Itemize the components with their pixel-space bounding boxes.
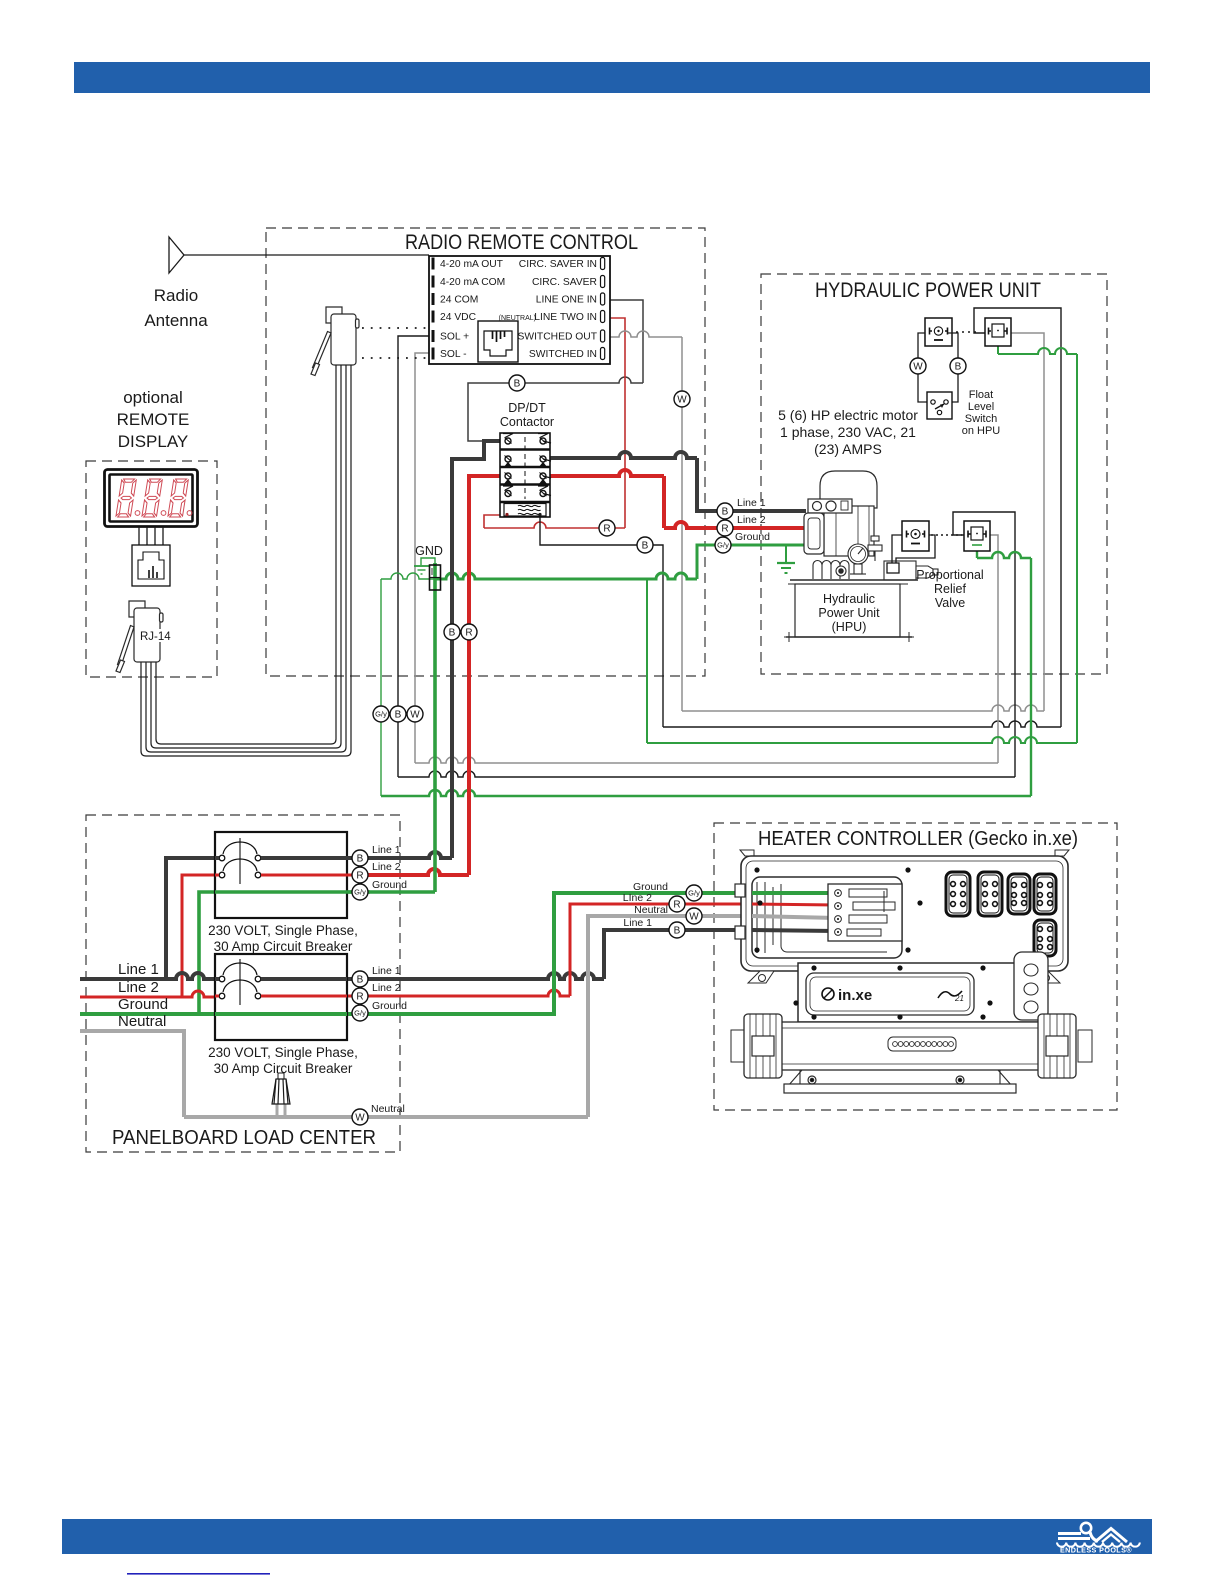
label HEATER CONTROLLER (Gecko in.xe) <box>758 828 1078 850</box>
svg-text:DP/DT: DP/DT <box>508 401 546 415</box>
endless pools logo <box>1057 1523 1140 1555</box>
svg-text:on HPU: on HPU <box>962 425 1001 437</box>
header bar <box>74 62 1150 93</box>
svg-text:DISPLAY: DISPLAY <box>118 432 189 451</box>
in.xe panel screws <box>793 965 992 1019</box>
svg-text:4-20 mA OUT: 4-20 mA OUT <box>440 259 504 270</box>
label 230 VOLT breaker 1 <box>208 923 358 954</box>
svg-text:Float: Float <box>969 389 993 401</box>
svg-text:PANELBOARD LOAD CENTER: PANELBOARD LOAD CENTER <box>112 1127 376 1149</box>
svg-text:G/y: G/y <box>375 710 387 719</box>
node G/y breaker1 <box>352 884 368 900</box>
svg-text:Ground: Ground <box>735 531 770 543</box>
svg-text:W: W <box>677 395 687 406</box>
RJ plug at radio remote <box>311 307 359 376</box>
heater tube <box>731 1014 1092 1078</box>
wire contactor coil to motor solenoid (black thin) <box>540 308 1061 727</box>
label Line 2 <box>118 979 159 996</box>
RJ-14 plug <box>116 601 163 673</box>
wire Neutral service (gray heavy) <box>80 916 837 1117</box>
in.xe heater panel <box>748 963 1060 1022</box>
wire Line 1 service (dark heavy) <box>80 930 837 979</box>
dashed box HEATER CONTROLLER <box>714 823 1117 1110</box>
dotted link SOL+ <box>362 327 428 329</box>
svg-text:Line 1: Line 1 <box>372 965 401 977</box>
svg-text:Line 1: Line 1 <box>737 497 766 509</box>
connector block J5 <box>1034 920 1056 956</box>
svg-text:4-20 mA COM: 4-20 mA COM <box>440 277 505 288</box>
wire SOL+ (black) to relief valve solenoid <box>398 336 1015 777</box>
svg-text:Ground: Ground <box>372 1000 407 1012</box>
svg-text:REMOTE: REMOTE <box>117 410 190 429</box>
GND terminal and earth symbol <box>414 544 443 590</box>
circuit breaker CB1 (230V 30A) <box>215 832 347 918</box>
svg-text:Power Unit: Power Unit <box>818 606 880 620</box>
node B motor line1 <box>717 503 733 519</box>
label Radio Antenna <box>144 286 208 330</box>
heater controller enclosure <box>735 850 1069 971</box>
svg-text:Neutral: Neutral <box>371 1103 405 1115</box>
motor solenoid box2 <box>985 318 1011 346</box>
svg-text:R: R <box>721 524 728 535</box>
wire contactor row3 to breaker1 Line2 (red heavy) <box>368 476 506 875</box>
svg-text:Antenna: Antenna <box>144 311 208 330</box>
svg-text:RADIO REMOTE CONTROL: RADIO REMOTE CONTROL <box>405 231 638 254</box>
svg-text:B: B <box>955 362 962 373</box>
footer bar <box>62 1519 1152 1554</box>
svg-text:LINE TWO IN: LINE TWO IN <box>534 312 597 323</box>
svg-text:Contactor: Contactor <box>500 415 554 429</box>
dashed box RADIO REMOTE CONTROL <box>266 228 705 676</box>
svg-text:24 VDC: 24 VDC <box>440 312 477 323</box>
node B coil <box>637 537 653 553</box>
svg-text:LINE ONE IN: LINE ONE IN <box>536 295 597 306</box>
svg-text:Ground: Ground <box>118 996 168 1013</box>
footer link underline <box>127 1573 270 1575</box>
svg-text:Neutral: Neutral <box>634 904 668 916</box>
label PANELBOARD LOAD CENTER <box>112 1127 376 1149</box>
motor solenoid box1 <box>925 318 952 346</box>
svg-text:GND: GND <box>415 544 443 558</box>
svg-text:Relief: Relief <box>934 582 966 596</box>
in.xe logo text <box>822 987 964 1004</box>
svg-text:SWITCHED IN: SWITCHED IN <box>529 349 597 360</box>
svg-text:5 (6) HP electric motor: 5 (6) HP electric motor <box>778 407 918 423</box>
heater terminal strip <box>828 884 902 941</box>
wire LINE TWO IN (red) down to R node <box>484 318 625 528</box>
label Ground <box>118 996 168 1013</box>
node B breaker2 <box>352 971 368 987</box>
wire green branch to relief valve solenoid ground <box>381 549 1031 796</box>
heater wires into terminals (redraw over compartment) <box>752 893 836 931</box>
node R motor line2 <box>717 520 733 536</box>
labels heater Ground/Line2/Neutral/Line1 <box>623 881 668 929</box>
label 230 VOLT breaker 2 <box>208 1045 358 1076</box>
svg-text:G/y: G/y <box>354 1009 366 1018</box>
svg-text:in.xe: in.xe <box>838 987 872 1004</box>
node R riser <box>461 624 477 640</box>
label optional REMOTE DISPLAY <box>117 388 190 451</box>
label 5 (6) HP electric motor <box>778 407 918 457</box>
svg-text:HYDRAULIC POWER UNIT: HYDRAULIC POWER UNIT <box>815 279 1041 302</box>
label Proportional Relief Valve <box>916 568 983 610</box>
svg-text:Level: Level <box>968 401 994 413</box>
svg-text:Line 1: Line 1 <box>118 961 159 978</box>
heater bottom bracket <box>784 1070 1016 1093</box>
antenna <box>169 237 429 273</box>
wire LINE ONE IN to contactor coil feed (black) <box>468 300 643 441</box>
svg-text:B: B <box>514 379 521 390</box>
svg-text:HEATER CONTROLLER (Gecko in.xe: HEATER CONTROLLER (Gecko in.xe) <box>758 828 1078 850</box>
dotted link SOL- <box>362 357 428 359</box>
node G/y motor ground <box>715 537 731 553</box>
node W switched-out <box>674 391 690 407</box>
svg-text:230 VOLT, Single Phase,: 230 VOLT, Single Phase, <box>208 923 358 938</box>
relief valve wires <box>887 535 935 573</box>
wire SOL- (gray) to relief valve <box>415 353 998 763</box>
connector block J4 <box>1034 874 1056 914</box>
svg-text:B: B <box>449 628 456 639</box>
node R coil <box>599 520 615 536</box>
wires display to jack <box>139 527 163 545</box>
svg-text:Valve: Valve <box>935 596 965 610</box>
svg-text:1 phase, 230 VAC, 21: 1 phase, 230 VAC, 21 <box>780 424 916 440</box>
contactor DP/DT <box>500 433 551 517</box>
svg-text:Line 2: Line 2 <box>737 514 766 526</box>
svg-text:SWITCHED OUT: SWITCHED OUT <box>517 332 597 343</box>
svg-text:Line 2: Line 2 <box>372 861 401 873</box>
svg-text:21: 21 <box>954 994 964 1003</box>
dashed box HYDRAULIC POWER UNIT <box>761 274 1107 674</box>
wire breaker1 Line1 input drop <box>166 858 222 979</box>
node W heater <box>686 908 702 924</box>
wire nut on neutral <box>272 1073 290 1117</box>
node G/y breaker2 <box>352 1005 368 1021</box>
dashed box PANELBOARD LOAD CENTER <box>86 815 400 1152</box>
node B heater <box>669 922 685 938</box>
connector block J1 <box>946 872 970 916</box>
svg-text:G/y: G/y <box>717 541 729 550</box>
label RADIO REMOTE CONTROL <box>405 231 638 254</box>
svg-text:CIRC. SAVER: CIRC. SAVER <box>532 277 597 288</box>
float level switch <box>927 392 952 419</box>
wire SWITCHED OUT (gray) to motor solenoid <box>604 331 1044 711</box>
HPU pump and base <box>790 536 938 580</box>
svg-text:SOL +: SOL + <box>440 332 469 343</box>
svg-text:B: B <box>357 975 364 986</box>
svg-text:G/y: G/y <box>354 888 366 897</box>
svg-text:W: W <box>355 1113 365 1124</box>
wire GND green bus <box>381 573 434 796</box>
label RJ-14 <box>138 629 171 643</box>
node W neutral <box>352 1109 368 1125</box>
svg-text:W: W <box>410 710 420 721</box>
label Neutral at panel W <box>371 1103 405 1115</box>
svg-text:Hydraulic: Hydraulic <box>823 592 875 606</box>
svg-text:B: B <box>357 854 364 865</box>
labels breaker1 outputs <box>372 844 407 891</box>
svg-text:R: R <box>673 900 680 911</box>
wire contactor to motor Line 2 (red heavy) <box>548 470 806 528</box>
node R breaker1 <box>352 867 368 883</box>
float switch wires <box>918 333 958 402</box>
dotted mechanical link relief valve <box>931 534 962 536</box>
node B sol riser <box>390 706 406 722</box>
svg-text:R: R <box>465 628 472 639</box>
svg-text:optional: optional <box>123 388 183 407</box>
svg-text:Radio: Radio <box>154 286 198 305</box>
heater controller left compartment <box>752 877 902 958</box>
svg-text:B: B <box>395 710 402 721</box>
wire Line 2 service (red) <box>80 904 837 997</box>
svg-text:B: B <box>674 926 681 937</box>
motor 5HP drawing <box>804 471 877 556</box>
node R breaker2 <box>352 988 368 1004</box>
svg-text:B: B <box>722 507 729 518</box>
svg-text:R: R <box>356 992 363 1003</box>
svg-text:R: R <box>603 524 610 535</box>
labels breaker2 outputs <box>372 965 407 1012</box>
svg-text:(HPU): (HPU) <box>832 620 867 634</box>
label DP/DT Contactor <box>500 401 554 429</box>
svg-text:B: B <box>642 541 649 552</box>
svg-text:R: R <box>356 871 363 882</box>
svg-text:RJ-14: RJ-14 <box>140 631 171 643</box>
connector block J3 <box>1008 874 1030 914</box>
svg-text:Ground: Ground <box>372 879 407 891</box>
svg-text:230 VOLT, Single Phase,: 230 VOLT, Single Phase, <box>208 1045 358 1060</box>
wire breaker1 Line2 input drop <box>182 875 222 997</box>
svg-text:Line 2: Line 2 <box>118 979 159 996</box>
svg-text:24 COM: 24 COM <box>440 295 478 306</box>
ribbon cable display to radio (4 wires) <box>141 365 351 756</box>
remote display 7-segment <box>105 470 198 527</box>
label HYDRAULIC POWER UNIT <box>815 279 1041 302</box>
node B breaker1 <box>352 850 368 866</box>
wire Ground service (green heavy) <box>80 893 837 1014</box>
RJ jack in terminal block <box>478 321 518 362</box>
label Neutral <box>118 1013 166 1030</box>
wire breaker1 interior reconnect <box>215 858 370 892</box>
HPU tank <box>784 584 914 642</box>
node B float <box>950 358 966 374</box>
node B riser <box>444 624 460 640</box>
svg-text:Line 2: Line 2 <box>372 982 401 994</box>
node G/y heater <box>686 885 702 901</box>
wire GND to breaker1 ground (green heavy) <box>199 563 435 1014</box>
relief valve solenoid box1 <box>902 521 929 551</box>
node G/y sol riser <box>373 706 389 722</box>
circuit breaker CB2 (230V 30A) <box>215 954 347 1040</box>
svg-text:W: W <box>689 912 699 923</box>
svg-text:30 Amp Circuit Breaker: 30 Amp Circuit Breaker <box>214 939 353 954</box>
wire contactor row1 to breaker1 Line1 (dark heavy) <box>368 441 506 858</box>
label Float Level Switch on HPU <box>962 389 1001 437</box>
svg-text:ENDLESS POOLS®: ENDLESS POOLS® <box>1060 1546 1132 1555</box>
node R heater <box>669 896 685 912</box>
svg-text:(23) AMPS: (23) AMPS <box>814 441 882 457</box>
right knockout panel <box>1014 952 1048 1020</box>
svg-text:LIne 2: LIne 2 <box>623 892 652 904</box>
node W float <box>910 358 926 374</box>
svg-text:W: W <box>913 362 923 373</box>
node B line-one <box>509 375 525 391</box>
labels motor Line1/Line2/Ground <box>735 497 770 543</box>
RJ jack below display <box>132 545 170 586</box>
connector block J2 <box>978 872 1002 916</box>
dashed box REMOTE DISPLAY <box>86 461 217 677</box>
svg-text:CIRC. SAVER IN: CIRC. SAVER IN <box>519 259 597 270</box>
wire breaker2 interior reconnect <box>215 979 347 1014</box>
enclosure screws <box>754 867 922 952</box>
label Line 1 <box>118 961 159 978</box>
relief valve solenoid box2 <box>964 521 990 551</box>
svg-text:Switch: Switch <box>965 413 997 425</box>
wire green motor solenoid ground loop <box>647 346 1077 743</box>
label Hydraulic Power Unit (HPU) <box>818 592 880 634</box>
svg-text:SOL -: SOL - <box>440 349 467 360</box>
terminal block radio remote <box>429 256 610 364</box>
wire contactor to motor Line 1 (black heavy) <box>548 452 806 511</box>
svg-text:Proportional: Proportional <box>916 568 983 582</box>
svg-text:G/y: G/y <box>688 889 700 898</box>
node W sol riser <box>407 706 423 722</box>
svg-text:30 Amp Circuit Breaker: 30 Amp Circuit Breaker <box>214 1061 353 1076</box>
dotted link motor solenoid <box>956 331 980 333</box>
ground symbol at motor <box>777 545 795 573</box>
svg-text:Line 1: Line 1 <box>623 917 652 929</box>
wire GND green to motor ground <box>436 545 806 579</box>
svg-text:Neutral: Neutral <box>118 1013 166 1030</box>
svg-text:Line 1: Line 1 <box>372 844 401 856</box>
